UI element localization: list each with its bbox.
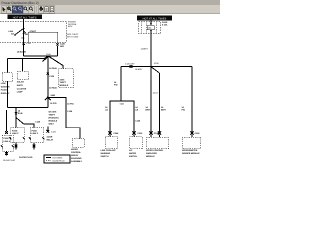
labels on x47.8 wire — [49, 67, 57, 89]
branch vertical x159 — [159, 73, 161, 133]
start feed rectangle — [28, 32, 58, 43]
svg-text:LG: LG — [105, 109, 108, 112]
button 6 — [29, 6, 34, 14]
svg-text:DISPLAY: DISPLAY — [1, 92, 10, 95]
rail1 — [24, 55, 58, 57]
far right labels — [182, 106, 186, 111]
svg-text:LOW: LOW — [1, 82, 6, 85]
button 7 dark icon — [38, 6, 43, 14]
labels on x134 — [135, 106, 141, 122]
fuse element wire — [23, 28, 25, 42]
wire from C126 to rail1 — [57, 46, 59, 57]
svg-text:RELAY: RELAY — [47, 139, 54, 142]
svg-text:THEFT: THEFT — [60, 81, 67, 84]
svg-text:CONTROL: CONTROL — [71, 151, 82, 154]
svg-text:W/ ANTI-: W/ ANTI- — [49, 110, 58, 113]
box1 text — [1, 82, 10, 95]
labels on x110 — [105, 106, 108, 111]
fuse box internal dashed bars — [141, 23, 143, 33]
stub to C128 connector — [47, 127, 49, 132]
svg-text:GLOW PLUG: GLOW PLUG — [19, 156, 33, 159]
bottom dashed box D4 — [182, 137, 201, 149]
wire down to rail1 — [23, 43, 25, 57]
far right wire — [191, 67, 193, 134]
connector X right — [56, 43, 59, 46]
anti-theft dashed box — [59, 69, 74, 88]
diagram background — [0, 0, 220, 165]
14 P/O label — [114, 81, 118, 86]
stub diagonal — [43, 56, 49, 61]
X connector on horizontal — [130, 65, 133, 68]
svg-text:C126 GRY: C126 GRY — [125, 63, 135, 66]
title bar — [0, 0, 220, 5]
svg-text:LINK A: LINK A — [4, 140, 11, 143]
bottom X connectors right page — [108, 131, 193, 134]
labels right of x159 — [161, 106, 166, 111]
bottom dashed box D1 — [106, 137, 118, 149]
wire box1 down to rail3 — [6, 81, 8, 108]
svg-text:MODULE: MODULE — [49, 119, 58, 122]
svg-text:16 R/LB: 16 R/LB — [49, 87, 57, 90]
svg-text:HOT AT ALL TIMES: HOT AT ALL TIMES — [13, 16, 37, 19]
svg-text:P/O: P/O — [114, 83, 118, 86]
D1 text — [101, 149, 117, 158]
fuse box side labels — [67, 21, 80, 39]
svg-text:P/O: P/O — [182, 109, 186, 112]
D2 text — [129, 149, 137, 158]
wire in fusebox — [150, 21, 152, 24]
legend row1 — [46, 157, 51, 159]
bottom left box text — [4, 137, 11, 143]
svg-text:ONLY: ONLY — [49, 122, 55, 125]
hot-at-all-times box R — [137, 15, 172, 20]
edge ticks on fuse link boxes — [10, 138, 45, 140]
bottom dashed box D2 — [130, 137, 143, 149]
svg-text:SWITCH: SWITCH — [129, 155, 137, 158]
svg-text:WASHER: WASHER — [1, 85, 10, 88]
svg-text:24 BR: 24 BR — [47, 136, 53, 139]
junction dot — [23, 28, 25, 30]
svg-text:CLUSTER: CLUSTER — [17, 87, 27, 90]
svg-text:BOX: BOX — [68, 25, 73, 28]
X connectors below — [15, 145, 36, 148]
drop labels — [18, 110, 41, 124]
svg-text:LOW COOLANT: LOW COOLANT — [101, 149, 117, 152]
drop to box2 — [22, 59, 24, 71]
connector C126 left — [22, 43, 24, 45]
small X marks on drops — [15, 112, 17, 114]
svg-text:5 15A: 5 15A — [162, 24, 168, 27]
link terminal — [14, 34, 15, 35]
svg-text:INSTR: INSTR — [17, 84, 24, 87]
toolbar bottom edge — [0, 13, 220, 15]
svg-text:WARNING: WARNING — [101, 152, 111, 155]
svg-text:LINK C: LINK C — [32, 132, 39, 135]
svg-text:Power Distribution (Box 2): Power Distribution (Box 2) — [2, 1, 39, 5]
drop right fuse link — [16, 118, 34, 128]
svg-text:16 P/O: 16 P/O — [67, 103, 74, 106]
fuse link box L — [11, 128, 25, 143]
wire stubs into boxes — [109, 134, 111, 136]
splice S106 — [48, 55, 50, 57]
svg-text:MODULE: MODULE — [146, 155, 155, 158]
labels left of x151 — [146, 106, 151, 111]
fuse dashed box R — [139, 22, 161, 34]
svg-text:A/C: A/C — [129, 149, 133, 152]
svg-text:SWITCH: SWITCH — [101, 155, 109, 158]
speed control text — [71, 148, 83, 163]
button 9 — [49, 6, 54, 14]
svg-text:14 BR/Y: 14 BR/Y — [135, 68, 143, 71]
fuse box dashed outline — [0, 21, 66, 43]
svg-text:HOT AT ALL TIMES: HOT AT ALL TIMES — [143, 17, 167, 20]
svg-text:SPEED CONTROL: SPEED CONTROL — [146, 149, 164, 152]
drop left fuse link — [15, 108, 17, 128]
splice2 — [47, 96, 49, 98]
legend box — [44, 155, 70, 163]
bottom left wire — [6, 110, 8, 131]
box2 text — [17, 81, 27, 94]
bottom left stub and X below box — [6, 151, 8, 156]
svg-text:LAMP: LAMP — [17, 91, 23, 94]
svg-text:AMPLIFIER: AMPLIFIER — [146, 152, 157, 155]
button 1 — [1, 6, 6, 14]
text below — [47, 136, 54, 142]
D3 text — [146, 149, 164, 158]
branch diagonal right — [151, 67, 160, 73]
component box1 dashed — [2, 73, 12, 82]
rail3 — [7, 107, 47, 109]
svg-text:WATER: WATER — [129, 152, 137, 155]
anti-theft text — [60, 79, 69, 87]
button 2 — [7, 6, 12, 14]
svg-text:SERVO: SERVO — [71, 154, 78, 157]
svg-text:14 BR/Y: 14 BR/Y — [141, 47, 149, 50]
junction horizontal — [121, 66, 192, 68]
D4 text — [182, 149, 200, 155]
bottom left component — [5, 131, 8, 134]
wires below fuse link boxes — [15, 143, 17, 150]
svg-text:SPEEDOMETER: SPEEDOMETER — [182, 149, 198, 152]
feed wire from hot box L — [23, 19, 25, 28]
svg-text:14 LG: 14 LG — [153, 91, 159, 94]
svg-text:MODULE: MODULE — [60, 84, 69, 87]
S402 bar — [110, 101, 134, 103]
separator — [36, 6, 38, 13]
branch right from splice2 — [48, 97, 80, 138]
splice3 — [150, 66, 152, 68]
rail2 — [7, 58, 44, 60]
small X on x47.8 — [47, 73, 49, 75]
button 4 pressed — [18, 6, 23, 14]
svg-text:THEFT: THEFT — [49, 113, 56, 116]
fuse link box R — [30, 128, 44, 143]
hot-at-all-times box L — [8, 15, 43, 20]
speed control dashed box — [72, 139, 85, 148]
svg-text:GLOW PLUG: GLOW PLUG — [3, 159, 16, 162]
svg-text:16 BLK/O: 16 BLK/O — [17, 51, 27, 54]
button 3 pressed — [12, 6, 17, 14]
svg-text:LINK C: LINK C — [12, 132, 19, 135]
svg-text:SOLENOID: SOLENOID — [71, 157, 82, 160]
svg-text:16 R/LB: 16 R/LB — [49, 67, 57, 70]
branch down x47.8 — [47, 56, 49, 97]
bottom dashed box D3 — [147, 137, 169, 149]
connector labels — [114, 132, 201, 135]
anti-theft passive text block — [49, 110, 59, 125]
svg-text:BR/Y: BR/Y — [146, 109, 151, 112]
svg-text:FUSE: FUSE — [4, 137, 10, 140]
corner at rail1 left — [23, 55, 25, 58]
button 8 — [44, 6, 49, 14]
svg-text:(PASSIVE): (PASSIVE) — [49, 116, 59, 119]
fuse terminal — [23, 33, 24, 34]
connector X — [46, 130, 49, 133]
labels C126 GRY right — [60, 42, 66, 48]
svg-text:ASSEMBLY: ASSEMBLY — [71, 160, 83, 163]
svg-text:SPEED: SPEED — [71, 148, 78, 151]
link labels — [9, 30, 37, 39]
bottom left box side ticks — [1, 146, 14, 148]
wire continue below splice2 — [47, 97, 49, 107]
svg-text:SENDER MODULE: SENDER MODULE — [182, 152, 200, 155]
bottom left dashed box — [2, 135, 13, 151]
svg-text:FUSE: FUSE — [32, 129, 38, 132]
fuse box side labels — [162, 21, 168, 26]
corner down left — [6, 59, 8, 73]
svg-text:SOLAR: SOLAR — [17, 81, 25, 84]
button 5 — [23, 6, 28, 14]
svg-text:TEST CONN: TEST CONN — [67, 36, 79, 39]
svg-text:R/LB: R/LB — [18, 112, 23, 115]
corner wire down left — [120, 67, 122, 101]
fuse element — [150, 23, 152, 25]
toolbar — [0, 5, 220, 14]
svg-text:GRY: GRY — [60, 45, 65, 48]
S402 wires down — [109, 103, 111, 133]
svg-text:GLOW PLUG: GLOW PLUG — [53, 160, 66, 163]
svg-text:FLUID: FLUID — [1, 89, 7, 92]
svg-text:FUSE: FUSE — [12, 129, 18, 132]
component box2 dashed — [18, 71, 29, 80]
svg-text:20A: 20A — [25, 33, 29, 36]
fuse link texts — [12, 129, 39, 135]
svg-text:ANTI-: ANTI- — [60, 79, 66, 82]
svg-text:HOT WIRE: HOT WIRE — [53, 156, 64, 159]
branch diag to rail2 — [44, 56, 49, 58]
svg-text:START: START — [30, 30, 37, 33]
branch diag to anti-theft — [49, 56, 64, 68]
svg-text:BR/Y: BR/Y — [161, 109, 166, 112]
main wire right page — [150, 34, 152, 134]
legend row2 — [46, 160, 51, 162]
fusible link diagonal — [15, 28, 23, 34]
labels on x66 wire — [67, 103, 74, 114]
svg-text:16 P/O: 16 P/O — [50, 102, 57, 105]
